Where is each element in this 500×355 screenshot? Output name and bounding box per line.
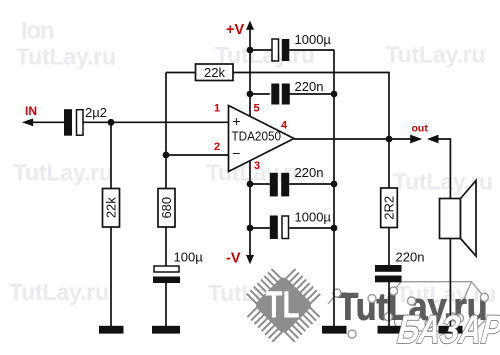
- svg-text:2R2: 2R2: [382, 196, 397, 220]
- svg-text:+V: +V: [226, 22, 244, 38]
- resistor R2 680: [158, 189, 175, 228]
- wire R3 to output node: [233, 73, 389, 140]
- wire C7 to ground: [388, 282, 390, 326]
- svg-text:TutLay.ru: TutLay.ru: [16, 44, 116, 70]
- capacitor C1 2µ2: [64, 109, 83, 136]
- wire C4 right: [289, 93, 334, 95]
- chip icon: [235, 257, 331, 353]
- wire C3 right to rail: [289, 49, 334, 51]
- svg-text:TDA2050: TDA2050: [232, 130, 282, 144]
- svg-text:22k: 22k: [104, 197, 119, 218]
- -V supply arrow: [246, 255, 254, 264]
- svg-text:680: 680: [159, 197, 174, 219]
- svg-text:220n: 220n: [295, 79, 324, 94]
- wire out connector to speaker: [439, 139, 451, 199]
- wire R1 top: [110, 122, 112, 188]
- junction rail / C4: [331, 91, 338, 98]
- junction +V / C4: [247, 91, 254, 98]
- wire C6 right: [289, 227, 334, 229]
- svg-text:+: +: [232, 113, 240, 129]
- wire input arrow to C1: [31, 121, 64, 123]
- junction output node: [386, 136, 393, 143]
- svg-text:2µ2: 2µ2: [85, 105, 107, 120]
- op-amp U1 TDA2050: [229, 106, 295, 172]
- wire inverting node to pin 2: [166, 154, 229, 156]
- resistor R4 2R2: [381, 188, 398, 228]
- vias: [333, 287, 488, 338]
- wire C3 left: [250, 49, 272, 51]
- ground C2: [152, 326, 180, 334]
- wire C2 to ground: [165, 283, 167, 326]
- capacitor C6 1000µ: [270, 216, 289, 240]
- capacitor C2 100µ: [153, 266, 180, 283]
- junction -V / C6: [247, 225, 254, 232]
- svg-text:TutLay.ru: TutLay.ru: [386, 41, 486, 67]
- wire C1 to op-amp pin 1: [84, 121, 229, 123]
- capacitor C4 220n: [271, 84, 290, 105]
- svg-text:1000µ: 1000µ: [295, 210, 332, 225]
- svg-text:2: 2: [214, 141, 220, 153]
- svg-text:220n: 220n: [396, 250, 425, 265]
- wire speaker to ground: [449, 239, 451, 327]
- wire +V rail pin 5: [249, 27, 251, 116]
- wire R2 top: [165, 155, 167, 189]
- pcb board outline: [328, 282, 484, 331]
- ground decoupling rail: [322, 326, 347, 334]
- junction rail / C5: [331, 181, 338, 188]
- junction input node: [108, 119, 115, 126]
- ground R1: [99, 326, 124, 334]
- svg-text:Ion: Ion: [21, 18, 55, 45]
- resistor R3 22k feedback: [196, 64, 234, 81]
- svg-text:100µ: 100µ: [174, 250, 204, 265]
- svg-text:220n: 220n: [295, 165, 324, 180]
- wire output: [294, 138, 410, 140]
- capacitor C3 1000µ: [272, 39, 289, 61]
- wire R4 to C7: [388, 228, 390, 266]
- svg-text:TutLay.ru: TutLay.ru: [393, 169, 493, 195]
- svg-text:5: 5: [253, 103, 259, 115]
- svg-text:1: 1: [214, 103, 220, 115]
- svg-text:out: out: [412, 123, 429, 135]
- ground C7: [378, 326, 402, 334]
- wire feedback vertical from node: [165, 73, 167, 156]
- wire C5 left: [250, 183, 270, 185]
- junction -V / C5: [247, 181, 254, 188]
- wire node to R3: [166, 72, 196, 74]
- svg-text:22k: 22k: [204, 65, 225, 80]
- resistor R1 22k: [103, 189, 120, 228]
- ground speaker: [439, 326, 463, 334]
- wire -V rail pin 3: [249, 161, 251, 256]
- connector IN arrow: [22, 118, 33, 126]
- wire R1 to ground: [110, 227, 112, 326]
- junction +V / C3: [247, 47, 254, 54]
- svg-text:3: 3: [254, 160, 260, 172]
- junction inverting node: [163, 152, 170, 159]
- wire C6 left: [250, 227, 270, 229]
- svg-text:TutLay.ru: TutLay.ru: [9, 279, 109, 305]
- wire R2 to C2: [165, 227, 167, 266]
- svg-text:БАЗАР: БАЗАР: [393, 307, 500, 352]
- capacitor C7 220n: [375, 265, 402, 282]
- capacitor C5 220n: [270, 173, 289, 197]
- junction rail / C6: [331, 225, 338, 232]
- wire C4 left: [250, 93, 270, 95]
- svg-text:TutLay.ru: TutLay.ru: [13, 160, 113, 186]
- wire decoupling ground rail: [333, 50, 335, 326]
- speaker LS1: [440, 181, 477, 257]
- svg-text:-V: -V: [226, 251, 241, 267]
- svg-text:TL: TL: [265, 285, 299, 327]
- wire C5 right: [289, 183, 334, 185]
- svg-text:IN: IN: [25, 104, 37, 118]
- wire output node to R4: [388, 139, 390, 188]
- connector out arrows: [410, 135, 422, 144]
- svg-text:4: 4: [281, 120, 288, 132]
- +V supply arrow: [246, 21, 254, 30]
- svg-text:−: −: [232, 145, 240, 161]
- svg-text:1000µ: 1000µ: [295, 32, 332, 47]
